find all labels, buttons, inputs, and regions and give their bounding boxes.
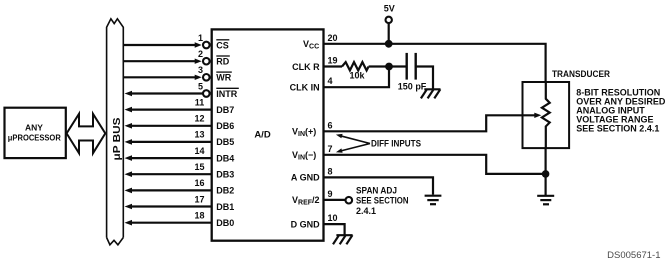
svg-text:9: 9 <box>328 189 333 199</box>
junction node transducer return <box>542 170 550 178</box>
wire DB5 pin 13: A/D data out to bus <box>125 130 212 145</box>
svg-text:3: 3 <box>198 65 203 75</box>
svg-text:150 pF: 150 pF <box>398 82 427 92</box>
potentiometer inside transducer <box>542 82 550 148</box>
svg-text:20: 20 <box>328 33 338 43</box>
wire junction to ground <box>544 174 546 196</box>
transducer box <box>523 82 570 148</box>
wire A GND pin 8 <box>324 177 434 194</box>
svg-text:RD: RD <box>216 57 229 67</box>
svg-text:DB4: DB4 <box>216 153 234 163</box>
wire VIN(+) pin 6 to transducer wiper <box>324 115 535 131</box>
wire VREF/2 pin 9 to span-adjust terminal <box>324 197 353 204</box>
svg-text:A/D: A/D <box>254 129 271 140</box>
svg-text:SEE SECTION 2.4.1: SEE SECTION 2.4.1 <box>576 123 659 133</box>
svg-text:19: 19 <box>328 56 338 66</box>
svg-text:18: 18 <box>194 211 204 221</box>
wire DB1 pin 17: A/D data out to bus <box>125 194 212 209</box>
SPAN ADJ note <box>356 185 409 216</box>
note: 8-bit resolution text <box>576 88 666 134</box>
svg-text:1: 1 <box>198 33 203 43</box>
DIFF INPUTS label with pointers <box>336 134 421 153</box>
wire CS pin 1: bus to A/D, active-low input <box>123 33 209 49</box>
svg-text:VIN(+): VIN(+) <box>292 127 316 139</box>
svg-text:DB3: DB3 <box>216 170 234 180</box>
svg-text:15: 15 <box>194 162 204 172</box>
svg-text:DB7: DB7 <box>216 105 234 115</box>
wire DB7 pin 11: A/D data out to bus <box>125 97 212 112</box>
junction node clock RC <box>385 63 393 71</box>
pin label RD <box>216 56 230 67</box>
svg-text:CLK R: CLK R <box>292 62 320 72</box>
svg-text:WR: WR <box>216 73 231 83</box>
svg-text:5V: 5V <box>384 4 395 14</box>
svg-text:μPROCESSOR: μPROCESSOR <box>8 133 61 143</box>
5V supply terminal <box>384 4 395 44</box>
wire VIN(-) pin 7 to transducer bottom <box>324 155 546 174</box>
svg-text:4: 4 <box>328 76 333 86</box>
wire INTR pin 5: A/D to bus, active-low output <box>125 81 210 96</box>
svg-text:6: 6 <box>328 120 333 130</box>
svg-text:μP BUS: μP BUS <box>111 118 123 161</box>
wire DB4 pin 14: A/D data out to bus <box>125 146 212 161</box>
svg-text:2.4.1: 2.4.1 <box>356 206 376 216</box>
wire pot bottom to junction <box>544 148 546 174</box>
chassis ground (clock) <box>421 89 441 98</box>
wire WR pin 3: bus to A/D, active-low input <box>123 65 209 81</box>
earth ground (transducer) <box>537 196 554 205</box>
wire capacitor to ground <box>416 67 433 89</box>
svg-text:ANY: ANY <box>25 123 43 133</box>
svg-text:8: 8 <box>328 166 333 176</box>
svg-text:2: 2 <box>198 49 203 59</box>
svg-text:7: 7 <box>328 144 333 154</box>
svg-text:D GND: D GND <box>291 219 321 229</box>
svg-text:CLK IN: CLK IN <box>290 83 320 93</box>
wire DB3 pin 15: A/D data out to bus <box>125 162 212 177</box>
capacitor 150 pF <box>398 53 427 92</box>
wire DB2 pin 16: A/D data out to bus <box>125 178 212 193</box>
microprocessor box "ANY uPROCESSOR" <box>5 108 66 158</box>
svg-text:DB5: DB5 <box>216 137 234 147</box>
chassis ground (D GND) <box>333 235 353 244</box>
svg-text:11: 11 <box>195 97 205 107</box>
wire VCC pin 20 to 5V and transducer <box>324 44 546 82</box>
wiper arrow into potentiometer <box>534 113 541 118</box>
svg-text:DB2: DB2 <box>216 186 234 196</box>
svg-text:10k: 10k <box>349 71 365 81</box>
svg-text:INTR: INTR <box>216 89 237 99</box>
svg-text:16: 16 <box>194 178 204 188</box>
svg-text:A GND: A GND <box>291 173 320 183</box>
A/D converter U1 outline <box>212 29 324 240</box>
junction node 5V/VCC <box>385 40 393 48</box>
svg-text:SPAN ADJ: SPAN ADJ <box>356 185 397 195</box>
svg-text:5: 5 <box>198 81 203 91</box>
wire CLK IN pin 4 to clock node <box>324 67 390 88</box>
svg-text:TRANSDUCER: TRANSDUCER <box>552 69 610 79</box>
svg-text:12: 12 <box>194 114 204 124</box>
wire resistor to clock node <box>369 65 406 67</box>
svg-text:10: 10 <box>328 213 338 223</box>
svg-text:DIFF INPUTS: DIFF INPUTS <box>371 138 421 148</box>
wire DB0 pin 18: A/D data out to bus <box>125 211 212 226</box>
wire D GND pin 10 <box>324 224 345 235</box>
svg-text:DB6: DB6 <box>216 121 234 131</box>
pin label CS <box>216 40 229 51</box>
uP BUS band (torn ribbon) <box>107 19 124 245</box>
svg-text:DB1: DB1 <box>216 202 234 212</box>
pin label WR <box>216 72 232 83</box>
pin label INTR <box>216 88 239 99</box>
svg-text:17: 17 <box>194 194 204 204</box>
svg-text:DB0: DB0 <box>216 218 234 228</box>
earth ground (A GND) <box>425 196 442 205</box>
svg-text:SEE SECTION: SEE SECTION <box>356 196 409 206</box>
wire CLK R pin 19 <box>324 65 343 67</box>
svg-text:14: 14 <box>194 146 204 156</box>
svg-text:DS005671-1: DS005671-1 <box>607 250 660 261</box>
svg-text:13: 13 <box>194 130 204 140</box>
wire RD pin 2: bus to A/D, active-low input <box>123 49 209 65</box>
bidirectional bus arrow <box>67 114 106 153</box>
wire DB6 pin 12: A/D data out to bus <box>125 114 212 129</box>
svg-text:CS: CS <box>216 40 229 50</box>
resistor 10k <box>342 62 369 81</box>
svg-text:VIN(−): VIN(−) <box>292 150 316 162</box>
